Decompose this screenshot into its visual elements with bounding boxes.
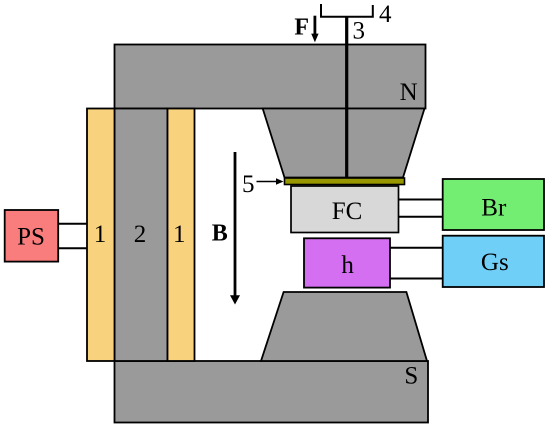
svg-text:2: 2 [134,221,147,248]
svg-text:FC: FC [332,198,363,225]
svg-text:PS: PS [17,223,45,250]
svg-text:S: S [404,363,418,390]
svg-text:4: 4 [379,1,392,28]
svg-text:1: 1 [94,221,107,248]
svg-text:h: h [341,252,354,279]
svg-text:3: 3 [352,18,365,45]
svg-text:Gs: Gs [481,249,509,276]
svg-text:B: B [212,220,228,246]
svg-text:F: F [294,15,309,41]
svg-text:1: 1 [173,221,186,248]
svg-text:5: 5 [242,171,255,198]
svg-text:N: N [400,79,418,106]
svg-text:Br: Br [481,195,507,222]
